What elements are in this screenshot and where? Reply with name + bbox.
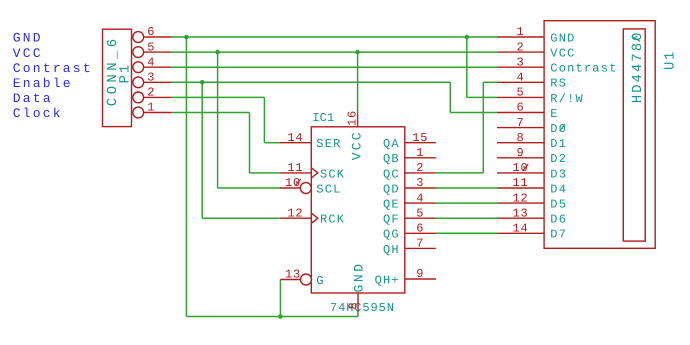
svg-text:QH+: QH+	[375, 273, 400, 287]
svg-text:D7: D7	[550, 228, 567, 242]
U1 display window rectangle	[623, 29, 645, 241]
wire Enable vertical jog	[449, 82, 451, 112]
svg-text:D6: D6	[550, 213, 567, 227]
wire Clock horizontal from P1.1	[172, 112, 250, 114]
IC1 pin 13 G	[280, 268, 324, 288]
svg-text:15: 15	[412, 131, 428, 145]
wire QG to U1.14 D7	[436, 232, 497, 234]
U1 pin 3 Contrast	[497, 55, 618, 75]
svg-text:6: 6	[516, 101, 524, 115]
svg-text:6: 6	[147, 25, 155, 39]
svg-text:D3: D3	[550, 167, 567, 181]
svg-text:1: 1	[516, 25, 524, 39]
U1 pin 8 D1	[497, 131, 567, 151]
svg-text:16: 16	[346, 110, 360, 126]
svg-text:10: 10	[512, 161, 528, 175]
svg-text:QD: QD	[383, 182, 400, 196]
svg-text:Data: Data	[13, 91, 53, 106]
U1 pin 6 E	[497, 101, 559, 121]
svg-text:SCK: SCK	[320, 167, 345, 181]
junction GND bottom at x280	[278, 314, 283, 319]
U1 pin 4 RS	[497, 71, 567, 91]
svg-text:11: 11	[512, 176, 528, 190]
U1 pin 14 D7	[497, 222, 567, 242]
connector P1 pin 5	[133, 40, 172, 57]
wire QE to U1.12 D5	[436, 202, 497, 204]
svg-text:GND: GND	[13, 31, 43, 46]
wire GND vertical to R/!W	[466, 37, 468, 97]
U1 pin 10 D3	[497, 161, 567, 181]
svg-text:8: 8	[516, 131, 524, 145]
svg-text:Contrast: Contrast	[13, 61, 93, 76]
wire SER horizontal	[264, 142, 279, 144]
IC1 pin 16 VCC top	[346, 110, 365, 160]
IC1 body	[311, 127, 405, 293]
IC1 pin 8 GND bottom	[347, 261, 367, 312]
svg-text:6: 6	[416, 222, 424, 236]
svg-text:D2: D2	[550, 152, 567, 166]
svg-text:12: 12	[512, 191, 528, 205]
svg-text:Clock: Clock	[13, 106, 63, 121]
svg-text:12: 12	[287, 206, 303, 220]
wire Data horizontal from P1.2	[172, 96, 265, 98]
svg-text:GND: GND	[550, 31, 575, 45]
IC1 pin 9 QH+	[375, 267, 436, 287]
IC1 pin 12 RCK	[279, 206, 345, 226]
U1 pin 12 D5	[497, 191, 567, 211]
svg-text:8: 8	[347, 301, 361, 309]
IC1 pin 14 SER	[279, 131, 341, 151]
wire RCK horizontal	[202, 217, 279, 219]
wire GND horizontal P1.6 to U1.1	[172, 36, 497, 38]
IC1 pin 7 QH	[383, 237, 436, 257]
connector P1 body	[103, 29, 132, 126]
svg-text:GND: GND	[352, 261, 367, 292]
svg-text:QC: QC	[383, 167, 400, 181]
wire GND vertical drop	[185, 37, 187, 317]
U1 pin 1 GND	[497, 25, 576, 45]
svg-text:10: 10	[285, 176, 301, 190]
svg-text:5: 5	[416, 206, 424, 220]
svg-text:QB: QB	[383, 152, 400, 166]
svg-text:9: 9	[516, 146, 524, 160]
svg-text:D1: D1	[550, 137, 567, 151]
svg-text:VCC: VCC	[13, 46, 43, 61]
U1 pin 13 D6	[497, 206, 567, 226]
slashed zero of IC1 pin number 10	[295, 179, 300, 186]
svg-text:3: 3	[516, 55, 524, 69]
svg-text:QA: QA	[383, 137, 400, 151]
slashed zero of U1 value HD44780	[632, 36, 641, 41]
connector P1 pin 1	[133, 101, 172, 118]
svg-text:E: E	[550, 107, 558, 121]
svg-text:VCC: VCC	[550, 47, 575, 61]
wire QD to U1.11 D4	[436, 187, 497, 189]
svg-text:4: 4	[416, 191, 424, 205]
svg-text:SER: SER	[316, 137, 341, 151]
connector P1 pin 4	[133, 55, 172, 72]
svg-text:R/!W: R/!W	[550, 92, 584, 106]
U1 pin 9 D2	[497, 146, 567, 166]
svg-text:7: 7	[516, 116, 524, 130]
svg-text:7: 7	[416, 237, 424, 251]
svg-text:2: 2	[147, 86, 155, 100]
IC1 pin 15 QA	[383, 131, 436, 151]
wire E horizontal to U1.6	[450, 112, 497, 114]
svg-text:2: 2	[516, 40, 524, 54]
svg-text:D4: D4	[550, 182, 567, 196]
wire VCC vertical to IC1 pin 16	[357, 52, 359, 113]
svg-text:HD44780: HD44780	[630, 30, 646, 103]
wire SCK horizontal	[250, 172, 280, 174]
slashed zero of U1 pin name D0	[560, 124, 565, 131]
wire GND bottom horizontal	[186, 316, 358, 318]
svg-text:13: 13	[285, 268, 301, 282]
svg-text:QF: QF	[383, 213, 400, 227]
svg-text:4: 4	[147, 55, 155, 69]
wire Enable horizontal from P1.3	[172, 81, 451, 83]
U1 body	[544, 21, 655, 249]
wire Contrast horizontal P1.4 to U1.3	[172, 66, 497, 68]
svg-text:Contrast: Contrast	[550, 62, 617, 76]
wire VCC horizontal P1.5 to U1.2	[172, 51, 497, 53]
junction VCC at x358	[355, 50, 360, 55]
slashed zero of U1 pin number 10	[523, 164, 528, 171]
U1 pin 7 D0	[497, 116, 567, 136]
IC1 pin 10 SCL	[279, 176, 341, 196]
wire GND riser to IC1 pin 8	[357, 312, 359, 317]
IC1 pin 1 QB	[383, 146, 436, 166]
svg-text:VCC: VCC	[349, 130, 364, 160]
wire Clock vertical to SCK	[249, 113, 251, 173]
wire Data vertical to SER	[263, 97, 265, 142]
svg-text:4: 4	[516, 71, 524, 85]
svg-text:11: 11	[287, 161, 303, 175]
svg-text:5: 5	[147, 40, 155, 54]
svg-text:SCL: SCL	[316, 182, 341, 196]
svg-text:RCK: RCK	[320, 213, 345, 227]
svg-text:3: 3	[147, 71, 155, 85]
IC1 pin 2 QC	[383, 161, 436, 181]
svg-text:RS: RS	[550, 77, 567, 91]
IC1 pin 5 QF	[383, 206, 436, 226]
junction Enable at x202	[200, 80, 205, 85]
svg-text:Enable: Enable	[13, 76, 73, 91]
svg-text:13: 13	[512, 206, 528, 220]
connector P1 pin 2	[133, 86, 172, 103]
wire G branch vertical	[279, 280, 281, 317]
connector P1 pin 6	[133, 25, 172, 42]
svg-text:3: 3	[416, 176, 424, 190]
U1 pin 11 D4	[497, 176, 567, 196]
wire Enable vertical to RCK	[201, 82, 203, 218]
U1 pin 5 R/!W	[497, 86, 584, 106]
svg-text:D5: D5	[550, 198, 567, 212]
svg-text:14: 14	[287, 131, 303, 145]
svg-text:P1: P1	[118, 63, 134, 84]
wire QC vertical to RS	[482, 82, 484, 173]
svg-text:2: 2	[416, 161, 424, 175]
wire RS horizontal to U1.4	[483, 81, 497, 83]
junction VCC at x218	[215, 50, 220, 55]
svg-text:14: 14	[512, 222, 528, 236]
svg-text:5: 5	[516, 86, 524, 100]
wire QC horizontal	[436, 172, 483, 174]
IC1 pin 11 SCK	[279, 161, 345, 181]
wire SCL horizontal	[218, 187, 280, 189]
svg-text:U1: U1	[662, 50, 678, 70]
svg-text:74HC595N: 74HC595N	[330, 301, 395, 315]
svg-text:G: G	[316, 274, 324, 288]
svg-text:IC1: IC1	[312, 111, 334, 125]
IC1 pin 3 QD	[383, 176, 436, 196]
svg-text:QH: QH	[383, 243, 400, 257]
IC1 pin 4 QE	[383, 191, 436, 211]
U1 pin 2 VCC	[497, 40, 576, 60]
connector P1 pin 3	[133, 71, 172, 88]
IC1 pin 6 QG	[383, 222, 436, 242]
wire QF to U1.13 D6	[436, 217, 497, 219]
junction GND at x467	[465, 35, 470, 40]
svg-text:QE: QE	[383, 198, 400, 212]
wire VCC vertical to SCL	[217, 52, 219, 188]
svg-text:9: 9	[416, 267, 424, 281]
svg-text:QG: QG	[383, 228, 400, 242]
wire R/!W horizontal to U1.5	[467, 96, 497, 98]
svg-text:1: 1	[147, 101, 155, 115]
junction GND at x186	[184, 35, 189, 40]
svg-text:1: 1	[416, 146, 424, 160]
